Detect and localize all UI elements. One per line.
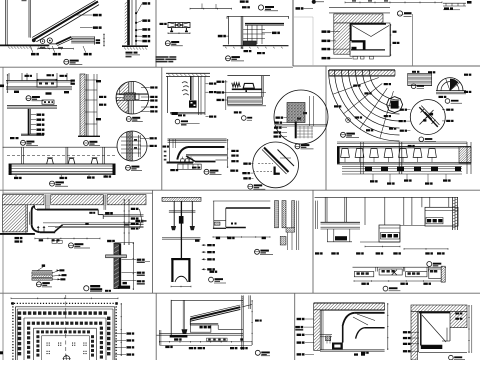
detail Q: suspended pendant lamp section — [162, 197, 201, 201]
lower cove profile — [365, 327, 385, 329]
leader labels — [31, 46, 33, 53]
stepped fascia — [56, 37, 71, 44]
coffer square rings — [18, 311, 21, 314]
downlight circles — [40, 39, 44, 43]
detail I1: wall niche section — [166, 72, 210, 74]
upper cove profile — [354, 312, 384, 314]
title label R — [255, 249, 260, 254]
black step — [352, 40, 366, 42]
detail P: large cove ceiling section — [3, 195, 146, 205]
detail T: recessed light coffer section — [353, 266, 442, 268]
title label B2 — [165, 41, 170, 46]
detail A: curved cove ceiling section — [5, 0, 7, 45]
detail M1: louver grille section — [408, 73, 432, 85]
detail E2: wall lining section — [80, 74, 85, 136]
cove end light box — [332, 343, 343, 350]
detail S: stepped gypsum ceiling section — [315, 196, 458, 198]
title label J2 — [248, 184, 253, 189]
title label P — [69, 243, 74, 248]
detail P3: dark wall lining section — [115, 242, 134, 244]
title label N — [341, 132, 346, 137]
radial spokes — [333, 78, 379, 95]
center dots and mark — [47, 343, 48, 344]
title label P2 — [36, 282, 41, 287]
top dimension line — [345, 1, 442, 3]
detail P2: layered finish build-up — [42, 264, 45, 267]
title label E3 — [21, 140, 26, 145]
title label A — [64, 59, 69, 64]
step down right end — [97, 210, 99, 215]
fixing squares — [135, 12, 137, 14]
title C — [397, 11, 402, 16]
insulation hooks — [182, 82, 188, 83]
concentric arcs — [329, 70, 400, 141]
detail B2: pedestal plan detail — [160, 23, 164, 25]
notes text block — [156, 56, 169, 58]
detail C: slab and recessed room section — [312, 0, 316, 4]
concrete column stipple — [275, 201, 279, 228]
title of coffer plan — [84, 286, 89, 291]
detail H: long cornice strip section — [3, 146, 117, 148]
detail B3: soffit section — [240, 0, 245, 2]
column symbol — [387, 97, 403, 113]
cove curve thick profile — [34, 2, 98, 40]
left wall hatch block — [3, 205, 28, 232]
detail B1: wall finish section — [127, 0, 130, 45]
detail N: fan-shaped ceiling plan — [329, 70, 395, 75]
step + lamps — [55, 225, 63, 232]
detail R: window head and curtain pocket — [213, 200, 270, 202]
dims — [35, 237, 100, 239]
detail N2: cornice band with pendant lamps — [337, 141, 467, 143]
detail M2: dome half-plan — [436, 90, 466, 92]
title label E1 — [26, 96, 31, 101]
pendant shade — [171, 258, 190, 260]
thick ceiling profile — [32, 206, 35, 211]
detail W2: corner bulkhead detail — [411, 305, 467, 311]
detail I2: drapery and louver section — [227, 75, 270, 77]
title label I3 — [204, 169, 209, 174]
title label G — [126, 165, 131, 170]
recessed fixture box — [189, 100, 197, 107]
floor baseline — [0, 44, 49, 46]
title label B3 — [226, 56, 231, 61]
title label E2 — [84, 141, 89, 146]
detail D1: small fixing detail — [443, 2, 466, 4]
detail I3: curved cove w/ light trough — [168, 138, 227, 140]
hatched wall column — [334, 23, 350, 54]
detail V: raked ceiling section — [170, 300, 172, 335]
sheet divider lines — [0, 66, 293, 68]
title B3 top — [258, 5, 263, 10]
dotted border — [11, 302, 118, 304]
title label F — [126, 117, 131, 122]
detail U: coffered ceiling reflected plan — [11, 297, 118, 299]
detail W1: arched cove at slab — [314, 302, 385, 304]
titles I1 — [175, 119, 180, 124]
title label J1 — [295, 144, 300, 149]
detail E3: bulkhead tee section — [7, 105, 57, 107]
title label H — [50, 181, 55, 186]
lamp trapezoids — [47, 159, 54, 164]
hatched slab — [334, 14, 383, 23]
rake thick lines — [190, 305, 240, 317]
lamp shade box — [243, 83, 254, 88]
detail E1: flat ceiling section — [8, 73, 10, 81]
thick cove profile — [188, 146, 225, 148]
